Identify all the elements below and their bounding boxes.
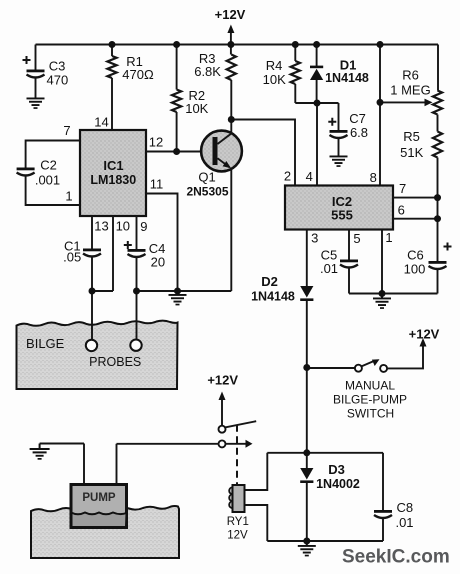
- PUMP box: [71, 485, 127, 528]
- relay contact lever: [225, 421, 256, 427]
- svg-text:10: 10: [116, 219, 130, 234]
- svg-text:9: 9: [140, 219, 147, 234]
- ground (line B): [169, 290, 187, 305]
- svg-text:D3: D3: [328, 462, 345, 477]
- junction pin13 / left probe: [89, 288, 96, 295]
- capacitor C8: [374, 453, 392, 541]
- junction pin8 line / +12V rail: [377, 41, 384, 48]
- svg-text:SeekIC.com: SeekIC.com: [342, 547, 450, 568]
- svg-text:.01: .01: [395, 515, 413, 530]
- svg-text:10K: 10K: [263, 72, 286, 87]
- relay loop bottom wire: [267, 540, 383, 542]
- svg-text:1: 1: [65, 189, 72, 204]
- svg-text:2N5305: 2N5305: [186, 185, 228, 199]
- svg-text:.01: .01: [320, 261, 338, 276]
- capacitor C6: [429, 243, 452, 294]
- resistor R5: [433, 132, 442, 262]
- probe electrode left: [86, 340, 97, 351]
- wire pin3 node down to relay loop: [306, 368, 308, 453]
- transistor Q1: [201, 131, 242, 172]
- capacitor C2: [17, 168, 80, 206]
- svg-text:2: 2: [284, 169, 291, 184]
- wire IC2 pin4: [316, 103, 318, 186]
- junction pin1 / ground line: [379, 290, 386, 297]
- svg-text:1N4002: 1N4002: [316, 477, 360, 491]
- junction R1 / +12V rail: [109, 41, 116, 48]
- wire R4/D1 node to C7: [295, 102, 338, 104]
- svg-text:LM1830: LM1830: [90, 173, 136, 187]
- wire Q1 collector: [231, 120, 295, 186]
- svg-text:6: 6: [398, 203, 405, 218]
- svg-text:12: 12: [149, 135, 163, 150]
- junction pin6 / R5-C6 column: [434, 215, 441, 222]
- svg-text:+12V: +12V: [409, 327, 440, 342]
- manual switch contact right: [380, 365, 387, 372]
- svg-text:C8: C8: [396, 500, 413, 515]
- diode D2: [300, 286, 313, 368]
- relay contact stub arrow: [225, 440, 252, 448]
- resistor R1: [107, 45, 116, 131]
- ground (C3): [27, 98, 45, 109]
- svg-text:12V: 12V: [227, 530, 248, 542]
- svg-text:MANUAL: MANUAL: [345, 379, 395, 393]
- wire right column from rail to R6: [437, 45, 439, 91]
- wire IC1 pin11 to ground node: [146, 194, 178, 292]
- svg-text:PROBES: PROBES: [89, 355, 141, 369]
- diode D3: [300, 453, 313, 541]
- capacitor C3: [23, 45, 45, 98]
- wire node line A (pins 13-10): [92, 290, 113, 292]
- wire left probe: [91, 291, 93, 340]
- wire IC2 pin7: [393, 197, 438, 199]
- svg-text:555: 555: [331, 208, 353, 223]
- junction pin9 / right probe: [133, 288, 140, 295]
- svg-text:+12V: +12V: [207, 373, 238, 388]
- svg-text:20: 20: [151, 254, 165, 269]
- svg-text:.05: .05: [63, 250, 81, 265]
- junction pin7 / R5-C6 column: [434, 194, 441, 201]
- junction R3 / Q1 collector: [228, 116, 235, 123]
- svg-text:14: 14: [94, 115, 108, 130]
- svg-text:+12V: +12V: [215, 7, 246, 22]
- svg-text:SWITCH: SWITCH: [347, 407, 394, 421]
- svg-text:3: 3: [311, 230, 318, 245]
- svg-text:51K: 51K: [400, 145, 423, 160]
- wire pump left to ground: [40, 443, 84, 445]
- svg-text:11: 11: [150, 177, 164, 192]
- wire pump to relay contact: [117, 443, 219, 445]
- junction R2 / pin12 / Q1 base: [173, 148, 180, 155]
- relay contact lower: [219, 440, 226, 447]
- junction relay loop bottom / ground: [303, 538, 310, 545]
- wire IC1 pin13 with capacitor C1: [83, 216, 101, 291]
- dashed actuation link: [236, 425, 238, 485]
- potentiometer R6: [380, 91, 442, 115]
- relay contact +12V arrow: [219, 392, 226, 426]
- probe electrode right: [130, 340, 141, 351]
- junction pin11 / ground node: [174, 288, 181, 295]
- svg-text:1: 1: [385, 230, 392, 245]
- IC1 LM1830 box: [80, 130, 146, 216]
- svg-text:BILGE: BILGE: [26, 336, 65, 351]
- ground (relay node): [298, 541, 316, 556]
- svg-text:.001: .001: [35, 173, 60, 188]
- junction R4 / +12V rail: [292, 41, 299, 48]
- +12V arrow (top): [227, 25, 234, 45]
- svg-text:IC1: IC1: [103, 158, 123, 173]
- capacitor C7: [328, 103, 347, 156]
- wire IC2 pin5 with capacitor C5: [340, 230, 358, 294]
- junction R3 / +12V rail: [227, 41, 234, 48]
- svg-text:10K: 10K: [185, 101, 208, 116]
- wire IC1 pin7 to C2: [26, 141, 80, 168]
- wire manual switch to +12V: [387, 345, 423, 368]
- svg-text:BILGE-PUMP: BILGE-PUMP: [333, 393, 407, 407]
- resistor R4: [291, 45, 300, 104]
- bilge water box: [17, 321, 178, 389]
- svg-text:470: 470: [47, 73, 69, 88]
- svg-text:C7: C7: [349, 111, 366, 126]
- svg-text:7: 7: [63, 123, 70, 138]
- relay coil RY1: [229, 485, 244, 512]
- manual switch contact left: [355, 365, 362, 372]
- wire IC2 pin8 from rail: [379, 45, 381, 186]
- svg-text:D2: D2: [261, 274, 278, 289]
- lower water (sump) box: [31, 506, 179, 558]
- svg-text:5: 5: [353, 231, 360, 246]
- manual switch lever: [361, 359, 379, 366]
- svg-text:13: 13: [94, 218, 108, 233]
- wire pot to R5: [437, 115, 439, 132]
- svg-text:Q1: Q1: [198, 170, 215, 185]
- svg-text:R6: R6: [402, 68, 419, 83]
- ground (555 pin1): [373, 294, 391, 309]
- svg-text:1N4148: 1N4148: [251, 289, 295, 303]
- wire IC1 pin9 with capacitor C4: [124, 216, 146, 291]
- wire IC2 pin3: [306, 230, 308, 287]
- junction R4 / D1 / C7 / pin4 node: [314, 100, 321, 107]
- wire IC2 pin1: [381, 230, 383, 294]
- svg-text:RY1: RY1: [227, 516, 249, 528]
- wire IC1 pin12 to Q1 base node: [146, 151, 213, 153]
- svg-text:100: 100: [404, 262, 426, 277]
- svg-text:C2: C2: [40, 158, 57, 173]
- svg-text:470Ω: 470Ω: [122, 67, 154, 82]
- svg-text:R4: R4: [266, 58, 283, 73]
- svg-text:PUMP: PUMP: [82, 492, 116, 504]
- junction relay loop top: [303, 449, 310, 456]
- svg-text:8: 8: [370, 170, 377, 185]
- wire relay coil top: [245, 453, 268, 490]
- svg-text:7: 7: [399, 181, 406, 196]
- junction D1 / +12V rail: [313, 41, 320, 48]
- manual switch wire left: [307, 367, 355, 369]
- resistor R3: [227, 45, 236, 120]
- svg-text:1 MEG: 1 MEG: [390, 83, 430, 98]
- +12V arrow (manual switch): [420, 338, 427, 347]
- junction R2 / +12V rail: [173, 41, 180, 48]
- wire Q1 emitter: [230, 169, 232, 291]
- junction R6 wiper tap: [377, 99, 384, 106]
- wire IC2 pin6: [393, 218, 438, 220]
- wire node line B (pin9 to emitter, grounded): [137, 290, 232, 292]
- wire IC1 pin10: [112, 216, 114, 291]
- ground (C7): [330, 156, 348, 167]
- svg-text:4: 4: [306, 169, 313, 184]
- wire bottom node (C5,pin1,C6): [349, 293, 438, 295]
- wire relay coil bottom: [245, 505, 268, 541]
- svg-text:R5: R5: [403, 129, 420, 144]
- svg-text:C3: C3: [49, 59, 66, 74]
- relay loop top wire: [267, 452, 383, 454]
- ground (pump): [30, 444, 50, 460]
- wire right probe: [136, 291, 138, 340]
- junction manual switch tap: [303, 364, 310, 371]
- relay contact upper: [219, 426, 226, 433]
- diode D1: [310, 45, 323, 104]
- wire pump leads: [84, 444, 117, 485]
- svg-text:6.8K: 6.8K: [194, 64, 221, 79]
- svg-text:C6: C6: [407, 247, 424, 262]
- wire top +12V rail: [36, 44, 439, 46]
- svg-text:1N4148: 1N4148: [325, 71, 369, 85]
- resistor R2: [172, 45, 181, 152]
- svg-text:6.8: 6.8: [350, 125, 368, 140]
- IC2 555 box: [285, 186, 393, 230]
